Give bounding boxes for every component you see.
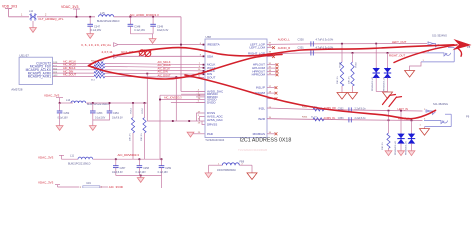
svg-text:20K,1%: 20K,1% xyxy=(337,76,339,84)
svg-text:AIC_IOVDD3.3: AIC_IOVDD3.3 xyxy=(164,96,182,100)
wires from block xyxy=(52,63,94,76)
no-connect stub MICBIAS xyxy=(267,132,277,135)
svg-text:LEFT_LOM: LEFT_LOM xyxy=(249,46,265,50)
svg-text:C350: C350 xyxy=(298,37,305,41)
svg-text:DOUT: DOUT xyxy=(207,75,216,79)
annotation arrow curl xyxy=(458,49,462,57)
capacitor C259 xyxy=(158,158,172,175)
wire vertical from DIN row xyxy=(146,74,148,121)
ground (open) top jack xyxy=(405,71,415,78)
annotation stroke M (lower eye edge, long sweep to output jack) xyxy=(89,54,283,79)
capacitor C349 xyxy=(150,16,168,34)
wire jack ground xyxy=(410,62,421,71)
junctions input rows xyxy=(388,110,390,112)
resistor R353 51.1 xyxy=(302,107,324,111)
svg-text:P9: P9 xyxy=(466,115,470,119)
wire (cap bottom rail) xyxy=(130,33,153,35)
ground (pink) under C347 xyxy=(87,34,94,39)
svg-text:10uF,6.3V: 10uF,6.3V xyxy=(112,171,123,174)
capacitor C257 xyxy=(112,158,126,175)
annotation scribble circles xyxy=(139,50,151,57)
svg-text:PESD0402-140: PESD0402-140 xyxy=(372,76,374,91)
svg-text:2.2uF,6.3v: 2.2uF,6.3v xyxy=(355,117,367,120)
ground (pink) under C253 xyxy=(89,126,96,131)
svg-text:/RESETA: /RESETA xyxy=(207,43,220,47)
ground (pink) row B xyxy=(137,176,144,183)
svg-text:3,6,19,29,28(du: 3,6,19,29,28(du xyxy=(81,43,111,47)
svg-text:L11: L11 xyxy=(70,155,75,158)
no-connect stub pin 38 xyxy=(267,55,275,58)
wire DVDD feed xyxy=(171,102,205,104)
svg-text:U58: U58 xyxy=(206,35,212,39)
svg-text:RIGHT_OUT: RIGHT_OUT xyxy=(389,53,405,57)
svg-text:C347: C347 xyxy=(94,25,101,28)
svg-text:10uF,6.3V: 10uF,6.3V xyxy=(112,117,123,120)
annotation stroke A (upper eye edge) xyxy=(89,45,455,66)
capacitor C352 xyxy=(338,107,367,112)
svg-text:0.1uf,16V: 0.1uf,16V xyxy=(58,117,69,120)
svg-text:HPRCOM: HPRCOM xyxy=(252,73,266,77)
ground (open) under R348 xyxy=(337,93,347,100)
svg-text:C254: C254 xyxy=(113,112,119,115)
svg-text:MICBIAS: MICBIAS xyxy=(253,132,265,136)
junction on DOUT row xyxy=(175,76,177,78)
wire row A xyxy=(86,102,147,104)
connector J-bottom SJ1-3524NG xyxy=(420,102,470,127)
capacitor C258 xyxy=(136,158,150,175)
resistor R654 xyxy=(94,72,105,75)
codec stubs for power pins xyxy=(196,91,205,102)
svg-text:2.2uF,6.3v: 2.2uF,6.3v xyxy=(355,107,367,110)
TVS diode D2 (PESD0402-140) xyxy=(384,53,392,92)
svg-text:C253: C253 xyxy=(97,112,103,115)
svg-text:AIC_3V3D: AIC_3V3D xyxy=(109,185,124,188)
annotation stroke B2 (tail up to arrow) xyxy=(394,45,457,63)
resistor R651 xyxy=(91,60,105,65)
svg-text:IN1L/P: IN1L/P xyxy=(256,86,265,90)
svg-text:AIC_DOUT: AIC_DOUT xyxy=(158,74,172,78)
op block U58 TLV320AIC3104 xyxy=(205,35,267,142)
svg-text:20K,1%: 20K,1% xyxy=(349,76,351,84)
ground (open) under R350 xyxy=(348,93,358,100)
net labels col1 xyxy=(63,60,77,77)
wire stub DRVSS xyxy=(202,121,205,125)
svg-text:C351: C351 xyxy=(298,45,305,49)
svg-text:TLV320AIC3104IRHB: TLV320AIC3104IRHB xyxy=(238,148,267,152)
svg-text:16OCHM8O86A6: 16OCHM8O86A6 xyxy=(217,169,236,172)
annotation stroke B (lower sweep to input jack) xyxy=(185,75,436,119)
codec pin junctions xyxy=(203,64,205,66)
filter FL (ferrite) xyxy=(21,10,47,21)
svg-text:4.7uF,6.3v,10%: 4.7uF,6.3v,10% xyxy=(316,37,334,41)
capacitor C252 xyxy=(57,102,70,126)
connector J-top SJ1-3524NG xyxy=(421,34,471,62)
svg-text:10uF,6.3V: 10uF,6.3V xyxy=(157,29,169,32)
svg-text:20K,1%: 20K,1% xyxy=(382,142,384,150)
wire AVDD_DAC feed xyxy=(181,90,205,92)
svg-text:PESD0402-140: PESD0402-140 xyxy=(395,140,397,155)
ground (pink) under D4 xyxy=(408,151,415,156)
ground (pink) under rail xyxy=(149,34,156,44)
resistor R354 51.1 xyxy=(302,116,324,121)
wire LEFT_LOP row xyxy=(267,43,427,46)
wire DRVDD2 feed xyxy=(160,94,205,96)
wire xyxy=(37,16,95,18)
svg-text:20K,1%: 20K,1% xyxy=(141,133,143,141)
capacitor C254 xyxy=(93,102,123,120)
ground (pink) below filter xyxy=(30,21,37,32)
svg-text:0.1uf,16V: 0.1uf,16V xyxy=(134,29,145,32)
annotation arrowhead xyxy=(453,39,472,50)
svg-text:PAD: PAD xyxy=(207,132,214,136)
ground (pink) left of FB9 xyxy=(205,173,212,178)
ground (pink) under C252 xyxy=(56,126,63,131)
wire vertical DVDD net xyxy=(159,95,161,159)
svg-text:SJ1-3524NG: SJ1-3524NG xyxy=(433,102,448,106)
node SDA off-page xyxy=(114,54,118,58)
wire vertical from DOUT row xyxy=(175,77,177,121)
ground (open) bottom jack xyxy=(420,129,430,136)
resistor R251 xyxy=(130,102,135,159)
node /RESETA off-page xyxy=(114,43,118,47)
svg-text:51.1%: 51.1% xyxy=(311,116,317,118)
junctions output rows xyxy=(341,43,343,45)
ground (pink) under R355 xyxy=(385,151,392,156)
wire horizontal to VSS pins xyxy=(147,120,204,122)
wire right of FB9 xyxy=(251,165,253,173)
svg-text:L14: L14 xyxy=(66,99,71,102)
ground (pink) PAD xyxy=(187,132,194,137)
svg-text:0.1uf,16V: 0.1uf,16V xyxy=(136,171,147,174)
svg-text:20K,1%: 20K,1% xyxy=(130,133,132,141)
capacitor C253 xyxy=(90,102,106,126)
codec right pins xyxy=(248,43,266,136)
ground (open) right of FB9 xyxy=(247,173,257,180)
power net VDAC_3V3 (row A) xyxy=(44,94,63,103)
codec right pin numbers xyxy=(269,42,272,134)
power net VDAC_3V3 (row B) xyxy=(38,155,64,159)
svg-text:IN2L: IN2L xyxy=(259,107,266,111)
svg-text:0.1uf,16V: 0.1uf,16V xyxy=(158,171,169,174)
resistor R348 xyxy=(337,44,344,93)
wire PAD xyxy=(191,133,205,135)
svg-text:PESD0402-140: PESD0402-140 xyxy=(405,140,407,155)
svg-text:C257: C257 xyxy=(120,167,126,170)
wires resistors to codec xyxy=(105,63,204,77)
ferrite bead FB9 xyxy=(209,160,253,172)
svg-text:AUDIO_L: AUDIO_L xyxy=(278,37,290,41)
svg-text:BLM21PG221SN1D: BLM21PG221SN1D xyxy=(68,163,91,166)
junction xyxy=(76,16,78,18)
inductor L11 xyxy=(62,155,93,166)
wire xyxy=(114,16,181,18)
svg-text:AIC_DIN: AIC_DIN xyxy=(158,70,168,74)
svg-text:C353: C353 xyxy=(338,117,344,120)
wire IOVDD feed xyxy=(160,99,205,101)
svg-text:FLT_HIFREQ_ATL: FLT_HIFREQ_ATL xyxy=(39,17,64,21)
svg-text:AVSS_DAC: AVSS_DAC xyxy=(207,118,224,122)
op block U51-57 (AM5728) xyxy=(11,53,52,91)
capacitor C348 xyxy=(128,16,146,34)
wire cap bottom rail B xyxy=(116,175,162,177)
inductor L14 xyxy=(60,99,110,106)
svg-text:VDAC_3V3: VDAC_3V3 xyxy=(38,180,54,184)
svg-text:I2C1 ADDRESS 0X18: I2C1 ADDRESS 0X18 xyxy=(240,137,292,143)
junction on DIN row xyxy=(146,73,148,75)
svg-text:C259: C259 xyxy=(165,167,171,170)
svg-text:VDAC_3V3: VDAC_3V3 xyxy=(44,94,60,98)
wire below rail xyxy=(161,176,163,189)
annotation slashes xyxy=(383,95,402,107)
svg-text:AM5728: AM5728 xyxy=(11,88,23,92)
TVS diode D3 (PESD0402-140) xyxy=(395,111,405,155)
wire left of FB9 xyxy=(208,165,210,173)
svg-text:AUDIN_RL: AUDIN_RL xyxy=(324,117,336,120)
svg-text:SDA: SDA xyxy=(207,54,213,58)
TVS diode D4 (PESD0402-140) xyxy=(405,120,415,155)
svg-text:R348: R348 xyxy=(340,61,342,67)
wire RIGHT_LOP row xyxy=(267,52,427,55)
codec left pins xyxy=(207,43,224,136)
wire IN2R row xyxy=(267,119,423,121)
wire TVS ground join xyxy=(376,91,387,93)
resistor R355 20K xyxy=(382,111,390,151)
svg-text:R252: R252 xyxy=(142,107,144,113)
svg-text:AUDIO_R: AUDIO_R xyxy=(278,46,290,50)
pin numbers xyxy=(53,62,58,77)
wire row B xyxy=(93,158,162,160)
svg-text:LEFT_OUT: LEFT_OUT xyxy=(392,40,407,44)
svg-text:L15: L15 xyxy=(100,11,105,15)
wire SDA xyxy=(118,55,204,57)
svg-text:2,3,7,11: 2,3,7,11 xyxy=(102,50,113,54)
no-connect stubs IN1L/IN1R xyxy=(267,86,277,100)
svg-text:0.1uf,16V: 0.1uf,16V xyxy=(95,117,106,120)
svg-text:C348: C348 xyxy=(134,25,141,28)
svg-text:U19: U19 xyxy=(86,182,91,185)
no-connect stubs HPLOUT/HPLCOM/HPROUT/HPRCOM xyxy=(267,63,278,76)
svg-text:C349: C349 xyxy=(157,25,164,28)
svg-text:L12: L12 xyxy=(29,10,34,13)
wire DRVDD feed xyxy=(181,93,205,95)
svg-text:MCASP5_AXR1: MCASP5_AXR1 xyxy=(28,75,51,79)
resistor R655 xyxy=(91,75,105,82)
svg-text:DRVSS: DRVSS xyxy=(207,122,217,126)
wire IN2L row xyxy=(267,108,423,111)
ground (pink) under D3 xyxy=(398,151,405,156)
svg-text:R354: R354 xyxy=(302,116,308,118)
wire xyxy=(9,16,30,18)
svg-text:C258: C258 xyxy=(143,167,149,170)
ground (open) under TVS pair xyxy=(383,92,393,99)
codec left pin numbers xyxy=(198,43,202,134)
resistor R653 xyxy=(91,67,105,71)
no-connect stubs LEFT_LOM pin 36 xyxy=(267,46,275,49)
svg-text:VDAC_3V3: VDAC_3V3 xyxy=(61,5,78,9)
svg-text:C252: C252 xyxy=(64,112,70,115)
svg-text:LEFT_IN: LEFT_IN xyxy=(398,107,409,111)
svg-text:PESD0402-140: PESD0402-140 xyxy=(384,76,386,91)
resistor R350 xyxy=(349,53,358,93)
power net VDAC_3V3 (bottom) xyxy=(38,180,79,187)
wire stub DVSS xyxy=(197,113,205,121)
svg-text:U51-57: U51-57 xyxy=(19,53,29,57)
svg-text:DVDD: DVDD xyxy=(207,100,216,104)
resistor R252 xyxy=(141,102,146,159)
capacitor C347 xyxy=(87,16,101,34)
svg-text:TLV320AIC3104: TLV320AIC3104 xyxy=(205,138,225,142)
power net VDAC_3V3 xyxy=(61,5,80,17)
resistor R652 xyxy=(94,65,105,68)
wire bottom jack ground xyxy=(424,127,426,129)
capacitor C353 xyxy=(338,117,367,122)
capacitor C350 xyxy=(298,37,334,46)
wire (AVDD vertical feed) xyxy=(180,17,182,92)
capacitor C351 xyxy=(298,45,334,55)
svg-text:AIC_DRVDD3.3: AIC_DRVDD3.3 xyxy=(118,153,140,157)
svg-text:AIC_WCLK: AIC_WCLK xyxy=(63,63,77,67)
power net VDD_3V3 xyxy=(2,5,17,17)
wire stub AVSS_ADC xyxy=(200,117,205,122)
svg-text:VDAC_3V3: VDAC_3V3 xyxy=(38,155,54,159)
svg-text:AIC_DOUT: AIC_DOUT xyxy=(63,73,77,77)
svg-text:0.1uf,16V: 0.1uf,16V xyxy=(91,29,102,32)
wire /RESETA xyxy=(118,44,204,46)
inductor L15 xyxy=(97,11,120,23)
svg-text:R251: R251 xyxy=(131,107,133,113)
net labels col2 xyxy=(158,60,172,78)
svg-text:SJ1-3524NG: SJ1-3524NG xyxy=(432,34,447,38)
resistor block U19 xyxy=(80,182,109,189)
TVS diode D1 (PESD0402-140) xyxy=(372,44,380,92)
svg-text:BLM21PG221SN1D: BLM21PG221SN1D xyxy=(97,20,120,23)
svg-text:IN2R: IN2R xyxy=(258,117,266,121)
svg-text:VDD_3V3: VDD_3V3 xyxy=(2,5,17,9)
svg-text:R350: R350 xyxy=(356,61,358,67)
